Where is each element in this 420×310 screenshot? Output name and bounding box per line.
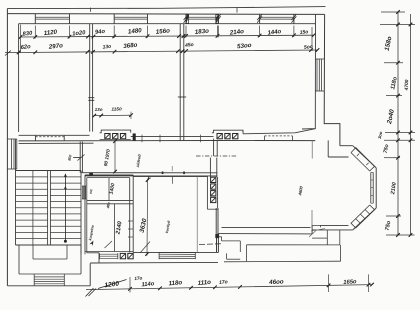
right exterior wall inner — [302, 14, 316, 129]
svg-text:1150: 1150 — [111, 107, 122, 113]
window bottom wall 2 — [159, 252, 195, 254]
glazed square — [225, 134, 230, 139]
big room left wall mid — [209, 158, 211, 177]
svg-text:13o: 13o — [95, 107, 103, 112]
corridor top wall inner line left part — [19, 142, 94, 144]
big room bottom wall inner — [222, 226, 311, 228]
tick on eaves — [90, 8, 92, 12]
svg-text:830: 830 — [22, 31, 33, 38]
svg-text:4700: 4700 — [404, 79, 410, 91]
svg-text:wc: wc — [89, 189, 94, 194]
window top wall room3 left — [185, 14, 187, 24]
step from big room wall to bay — [311, 225, 313, 234]
kitchen dim 3630 — [146, 179, 149, 256]
tick room2/3 wall — [178, 96, 186, 98]
left exterior wall inner upper — [18, 24, 20, 132]
door arrow small rooms — [89, 241, 93, 246]
terrace outline — [247, 244, 340, 246]
svg-text:46oo: 46oo — [268, 278, 284, 286]
big room left wall upper — [213, 139, 215, 156]
center dash above wall — [171, 166, 173, 171]
svg-text:94o: 94o — [95, 29, 106, 36]
wall top line right segment rising — [243, 129, 315, 134]
bay top wall — [340, 145, 353, 147]
left exterior wall outer — [6, 8, 8, 285]
small rooms left wall — [84, 175, 86, 252]
kitchen left wall — [129, 178, 131, 253]
svg-text:17o: 17o — [219, 279, 228, 286]
svg-text:45o: 45o — [184, 42, 194, 49]
radiator tick room1/2 wall — [88, 97, 94, 99]
transom squares casing under room2 — [100, 130, 131, 133]
bay right window — [370, 172, 372, 203]
bay bottom wall — [312, 229, 353, 231]
big room bay piers — [311, 140, 313, 158]
bay right face outer — [375, 168, 377, 208]
bay bottom diagonal window — [351, 205, 375, 228]
dark jamb hatch window3 — [186, 15, 189, 24]
glazed square — [105, 134, 110, 139]
right dim vline 1 — [397, 12, 399, 235]
squares row bottom line — [100, 138, 131, 140]
main wall line under rooms (continuous) — [19, 140, 316, 142]
door lintel dashed room1 — [36, 136, 65, 138]
wall stub to terrace — [216, 235, 218, 253]
svg-text:13o: 13o — [102, 44, 111, 51]
svg-text:5oo: 5oo — [304, 44, 313, 51]
eaves line top — [8, 7, 326, 9]
window bottom wall 1 — [100, 253, 118, 255]
small rooms top wall — [85, 174, 133, 176]
left flight walk line — [32, 171, 34, 246]
bottom dim guide verticals — [328, 274, 330, 292]
dark junction blob — [216, 234, 219, 237]
door room1->corridor jambs — [35, 136, 37, 141]
terrace door threshold tick — [199, 243, 221, 246]
window top wall room3 right — [259, 14, 261, 24]
building bottom-left outline — [7, 285, 90, 287]
window top wall room2 — [113, 14, 115, 24]
glazed square — [128, 253, 133, 258]
wall top line mid segment — [131, 136, 214, 138]
entry steps — [33, 274, 35, 286]
door jambs corridor bottom wall — [162, 172, 164, 175]
dark pier kitchen wall top — [133, 134, 135, 140]
bottom wall outer line — [90, 261, 218, 264]
big room bottom wall outer — [217, 233, 312, 235]
glazed square — [211, 177, 216, 182]
right flight walk arrow — [64, 174, 66, 241]
entry inner box — [32, 245, 34, 259]
svg-text:368o: 368o — [123, 42, 138, 50]
entry outer box — [18, 245, 20, 274]
stair right wall — [80, 171, 82, 255]
svg-text:156o: 156o — [155, 27, 170, 35]
right exterior wall outer — [324, 14, 340, 145]
dashed lintel big room top wall — [265, 135, 293, 137]
terrace bottom edge — [224, 260, 341, 263]
kitchen top wall opening jambs — [148, 176, 150, 180]
entry arrow corridor — [78, 155, 85, 161]
bathroom divider — [114, 204, 116, 252]
right dim ticks — [381, 11, 405, 13]
bay bottom inner jog — [320, 225, 322, 227]
window right wall — [316, 59, 318, 91]
glazed square — [217, 134, 222, 139]
stairwell top boundary — [16, 170, 82, 172]
bay bottom diagonal outer — [353, 208, 376, 230]
wall room1/room2 — [89, 24, 91, 132]
dash ticks on corridor wall — [141, 135, 143, 143]
bottom dim line — [86, 285, 372, 290]
right dim vline 2 — [410, 14, 412, 235]
row2 left arrow — [5, 51, 11, 56]
corridor bottom wall — [81, 172, 218, 174]
left wall inner lower (stairwell) — [15, 140, 17, 246]
casing around squares column — [206, 177, 208, 209]
radiator ticks kitchen left wall — [128, 220, 133, 222]
bay shoulder top outer — [327, 140, 329, 157]
stairs bottom landing line — [16, 244, 82, 246]
stair treads — [16, 176, 48, 178]
big room left wall lower thin — [215, 208, 217, 235]
dark pier corridor wall junction — [90, 173, 93, 176]
axis dash-dot line big room wall — [196, 155, 237, 157]
wall under wc — [87, 200, 133, 202]
transom squares casing under room3 — [212, 130, 243, 133]
wall room2/room3 — [179, 24, 181, 133]
glazed square — [120, 134, 125, 139]
stair center double line — [47, 171, 49, 246]
window left wall stairwell — [10, 139, 12, 169]
wc divider — [108, 178, 110, 201]
tick slash terrace corner — [309, 231, 316, 238]
bay top diagonal outer — [353, 146, 376, 168]
glazed square — [211, 197, 216, 202]
glazed square — [113, 134, 118, 139]
dim row1 extension lines — [34, 26, 36, 39]
svg-text:17o: 17o — [134, 275, 143, 281]
bottom dim start hooks — [86, 288, 94, 297]
wall 2/3 continuation through band — [179, 132, 181, 140]
svg-text:15o: 15o — [299, 29, 308, 36]
door dim line corridor — [114, 140, 116, 173]
svg-text:114o: 114o — [141, 281, 155, 288]
glazed square — [120, 253, 125, 258]
svg-text:1480: 1480 — [128, 27, 143, 35]
window top wall room1 — [34, 14, 36, 24]
svg-text:111o: 111o — [197, 279, 211, 287]
dim row1 line — [21, 35, 314, 37]
tick hall divider — [73, 157, 80, 159]
svg-text:1120: 1120 — [43, 29, 58, 37]
hall divider wall — [79, 142, 81, 173]
garden steps below big room — [221, 237, 223, 241]
svg-text:183o: 183o — [194, 28, 209, 36]
top exterior wall outer line — [7, 13, 325, 16]
svg-text:62o: 62o — [20, 44, 31, 51]
small rooms bottom line — [85, 251, 133, 253]
top exterior wall inner line — [19, 23, 316, 25]
dim row2 line — [5, 50, 318, 53]
stairs-side door leaf hatch — [82, 186, 84, 199]
svg-text:118o: 118o — [168, 279, 182, 287]
bay top diagonal window — [351, 148, 375, 171]
glazed square — [211, 184, 216, 189]
glazed square — [211, 191, 216, 196]
room1 bottom wall line — [19, 134, 90, 136]
door swing diagonal hall — [105, 241, 113, 248]
dim 130 1150 — [94, 114, 132, 116]
glazed square — [233, 134, 238, 139]
bottom wall inner step — [87, 252, 99, 254]
kitchen right wall / shaft (faint) — [196, 177, 198, 253]
svg-text:165o: 165o — [343, 279, 357, 286]
door swing diagonal kitchen — [140, 242, 150, 254]
eaves step tick — [236, 8, 238, 13]
